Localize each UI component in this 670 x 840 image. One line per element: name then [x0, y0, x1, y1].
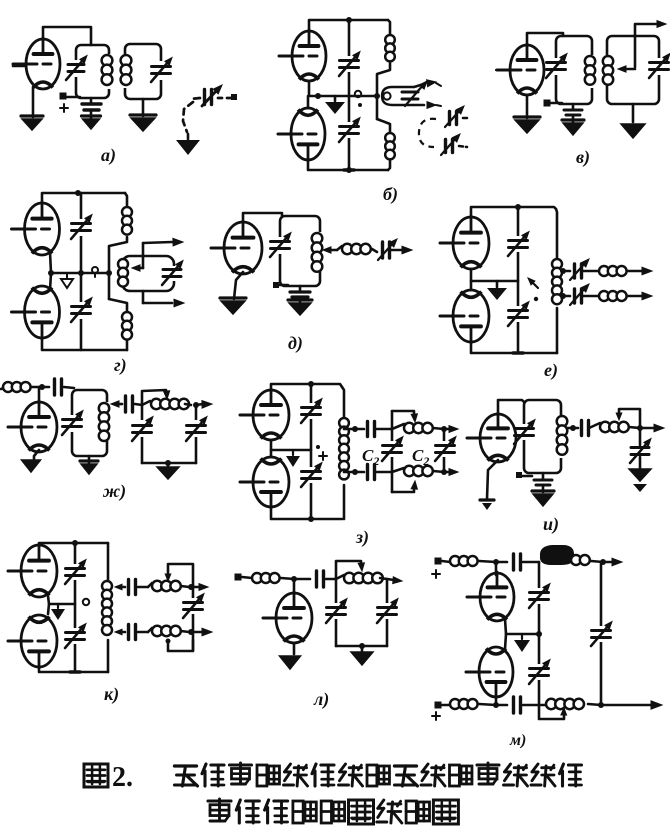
tank right rail k lower: [107, 640, 110, 672]
wire plate V7 to tank d: [243, 213, 282, 222]
output arrow i: [640, 427, 655, 430]
caption line1 glyph 14: [532, 764, 538, 772]
output arrow k upper: [191, 586, 199, 589]
variable capacitor m upper: [530, 591, 549, 594]
variable capacitor g lower: [72, 305, 91, 308]
series capacitor i: [580, 421, 583, 436]
tank left rail l: [335, 579, 338, 646]
antenna capacitor b upper: [448, 112, 451, 125]
circuit k: tube V15 lower: [21, 615, 57, 667]
bracket i: [619, 409, 640, 428]
plus mark m top: [432, 573, 440, 575]
input coil m top: [442, 561, 450, 562]
grid lead V1: [13, 65, 26, 68]
output arrow z lower: [444, 471, 450, 474]
varcap right k: [184, 601, 203, 604]
wire cathode V7 down d: [234, 272, 243, 299]
series capacitor k lower: [127, 625, 130, 640]
ground under V4 v: [514, 115, 540, 118]
caption line2 glyph 2: [236, 800, 240, 810]
ground below tank i: [532, 489, 554, 492]
tank right rail g upper + coil: [125, 193, 127, 206]
caption line1 glyph 6: [312, 764, 316, 774]
circuit v: tube V4: [510, 45, 544, 95]
junction dot g rail: [106, 270, 112, 276]
tap arrow k lower: [119, 631, 125, 634]
junction wire g: [51, 272, 109, 275]
tank right rail b upper + coil: [388, 20, 390, 34]
circuit e: tube V9 lower: [453, 290, 489, 342]
series capacitor 2 zh: [121, 403, 122, 406]
junction dot z out upper: [441, 426, 447, 432]
ground under V1: [21, 114, 43, 117]
input square m top: [435, 558, 442, 565]
varcap tank right l: [378, 606, 397, 609]
circuit e: tube V8 upper: [453, 217, 489, 269]
caption figure-number glyph: [84, 764, 108, 787]
ground below tank l: [361, 646, 364, 651]
plate lead zh: [38, 387, 41, 402]
plus mark z: [319, 455, 327, 457]
variable capacitor tank2 a: [152, 65, 171, 68]
plus mark m bottom: [432, 715, 440, 717]
ground under V7 d: [220, 296, 246, 299]
bracket bottom k: [168, 640, 193, 651]
ground below tank d: [288, 298, 312, 301]
inductor antenna tank v: [603, 56, 613, 66]
ground arrow k: [57, 604, 59, 608]
tank right rail g lower + coil: [109, 299, 127, 311]
input coil zh: [1, 388, 4, 389]
tank right rail b lower + coil: [377, 119, 390, 132]
cathode junction wire e: [471, 269, 518, 281]
output coil i: [589, 423, 600, 428]
varcap right rail m: [592, 629, 611, 632]
coil m bottom: [546, 699, 556, 709]
bias square d: [273, 282, 279, 288]
resonator left varcap z: [383, 444, 402, 447]
svg-text:л): л): [313, 689, 329, 710]
varcap tank left l: [327, 606, 346, 609]
shunt varcap i: [639, 428, 642, 445]
wire plate V4 to tank top v: [527, 33, 563, 45]
svg-text:з): з): [355, 527, 369, 548]
top wire k: [39, 543, 108, 545]
bottom wire k: [39, 667, 108, 672]
ground arrow b: [334, 96, 337, 101]
tap arrow k upper: [119, 586, 125, 589]
caption line2 glyph 4: [293, 801, 303, 823]
caption line1 glyph 10: [422, 764, 428, 772]
tank right rail z upper: [342, 387, 344, 418]
variable capacitor tank1 zh: [63, 418, 82, 421]
cathode junction z: [271, 440, 311, 450]
top wire b: [309, 20, 388, 31]
tank2 left rail zh: [141, 405, 144, 463]
junction dot b top: [346, 17, 352, 23]
top wire z: [271, 384, 342, 390]
antenna capacitor b lower: [444, 140, 447, 153]
feeder vertical g: [142, 243, 145, 268]
caption line1 glyph 11: [450, 765, 460, 786]
junction dot l: [291, 576, 297, 582]
caption line1 glyph 5: [285, 764, 291, 772]
output arrow m bottom: [601, 704, 650, 707]
junction dot m top: [493, 559, 499, 565]
tank2 bottom zh: [142, 462, 196, 465]
junction dot m top right: [600, 559, 606, 565]
ground i: [629, 469, 651, 481]
svg-text:ж): ж): [102, 481, 126, 502]
tank2 top bracket zh: [142, 390, 166, 405]
svg-text:и): и): [543, 514, 559, 535]
circuit l: tube V16: [276, 593, 312, 643]
series capacitor m bottom: [496, 704, 507, 707]
variable capacitor b lower: [340, 125, 359, 128]
tap arrow e: [531, 281, 538, 288]
stray mark left of b: [231, 94, 237, 100]
caption line1 glyph 13: [505, 764, 511, 772]
svg-text:а): а): [101, 145, 116, 166]
circuit d: tube V7: [224, 222, 262, 274]
blocking capacitor below tank i: [542, 473, 545, 479]
feeder arrow down a: [187, 134, 190, 139]
junction dot g top: [75, 190, 81, 196]
ground below tank2 a: [142, 99, 145, 116]
dashed antenna loop b: [419, 119, 436, 147]
coupling loop frame g: [122, 256, 174, 291]
tank tall coil k: [102, 581, 112, 591]
variable capacitor tank i: [515, 427, 534, 430]
junction dot k upper: [188, 584, 194, 590]
ground arrow e: [496, 281, 499, 287]
circuit zh: tube V10: [21, 402, 57, 452]
junction dot k lower: [188, 629, 194, 635]
inductor tank v: [585, 56, 595, 66]
right rail m: [600, 562, 603, 705]
blocking capacitor below tank1 a: [90, 98, 93, 103]
variable capacitor g upper: [72, 222, 91, 225]
svg-text:г): г): [114, 355, 127, 376]
middle column b: [348, 20, 351, 170]
junction dot z: [308, 381, 314, 387]
tank right rail k upper: [107, 543, 110, 581]
tank frame d: [280, 216, 320, 286]
svg-text:м): м): [509, 732, 526, 749]
bias square node v: [544, 100, 551, 107]
tank right rail e lower: [556, 308, 559, 353]
caption line1 glyph 12: [477, 763, 499, 766]
feeder top arrow g: [143, 242, 172, 243]
wire cathode V1 down: [32, 87, 35, 117]
svg-text:в): в): [576, 147, 590, 168]
variable capacitor k lower: [66, 631, 85, 634]
grid dash lead v: [496, 69, 505, 71]
feeder bottom arrow g: [143, 302, 172, 305]
output arrow l: [387, 579, 394, 580]
circuit i: tube V13: [480, 414, 516, 462]
antenna feed wire v: [635, 24, 658, 67]
ground below tank2 zh: [167, 463, 170, 466]
tank right rail e upper: [556, 209, 557, 259]
output arrow z upper: [444, 428, 450, 431]
wire plate V1 to tank1 top: [43, 27, 91, 45]
caption line1 glyph 15: [560, 764, 564, 774]
middle column e: [517, 207, 520, 353]
blocking capacitor below tank d: [299, 286, 302, 291]
caption line2 glyph 6: [349, 800, 374, 824]
circuit b: tube V2 upper: [292, 31, 326, 81]
junction dot b center: [315, 93, 321, 99]
small coil m top: [571, 555, 581, 565]
ground under V13 i: [480, 498, 494, 501]
circuit a: tube V1: [26, 39, 60, 89]
variable capacitor b upper: [340, 59, 359, 62]
plate lead l: [293, 579, 296, 593]
circuit m: tube V18 lower: [479, 647, 513, 697]
circuit z: tube V12 lower: [253, 457, 289, 507]
tank top coil l: [336, 575, 344, 579]
tank coil e: [552, 259, 562, 269]
caption line2 glyph 5: [321, 801, 331, 823]
caption line1 glyph 2: [202, 764, 206, 774]
output tap dot i: [570, 425, 576, 431]
tank tall coil z: [339, 418, 349, 428]
svg-text:е): е): [544, 360, 558, 381]
input square l: [235, 574, 242, 581]
top wire g: [42, 193, 125, 203]
coupling coil g: [118, 259, 128, 269]
svg-text:б): б): [383, 184, 398, 205]
junction dot m bottom right: [598, 702, 604, 708]
ground arrow small g: [66, 273, 68, 278]
caption line2 glyph 1: [208, 799, 231, 802]
feed tap arrow v: [624, 68, 635, 71]
variable capacitor z upper: [302, 406, 321, 409]
series capacitor m top: [496, 561, 507, 564]
resonator bottom coil z: [392, 468, 404, 472]
right rail k: [192, 585, 195, 650]
ground below tank1 a: [82, 114, 101, 117]
series capacitor z lower: [366, 465, 369, 480]
caption line2 glyph 7: [378, 800, 384, 808]
output lower e: capacitor: [563, 295, 570, 298]
caption line1 glyph 1: [175, 764, 197, 767]
circuit m: tube V17 upper: [480, 573, 514, 621]
tap dot e lower: [560, 293, 566, 299]
output arrow b upper: [414, 84, 424, 87]
inductor tank1 zh: [99, 403, 109, 413]
output arrow b lower: [414, 104, 424, 107]
svg-text:2.: 2.: [112, 762, 133, 793]
ground under V10 zh: [34, 450, 39, 459]
variable capacitor z lower: [302, 470, 321, 473]
tank frame i: [524, 400, 561, 473]
junction dot z out lower: [441, 469, 447, 475]
tank2 frame a: [125, 44, 161, 99]
input coil m bottom: [442, 704, 450, 707]
resonator top bracket z: [392, 411, 414, 415]
tank right rail l: [386, 579, 389, 646]
tank2 right rail zh: [195, 405, 198, 463]
output tap arrow d: [328, 249, 337, 252]
svg-text:д): д): [288, 333, 303, 354]
series capacitor k upper: [127, 580, 130, 595]
coil k lower: [148, 628, 152, 632]
bottom bracket m: [539, 705, 564, 719]
tank frame v: [556, 36, 592, 104]
caption line1 glyph 8: [367, 765, 377, 786]
junction dot b bottom: [346, 167, 352, 173]
tap lower z: [352, 469, 358, 475]
feeder tap arrow g: [138, 267, 143, 270]
caption line2 glyph 3: [265, 800, 269, 810]
plus mark a: [60, 107, 68, 109]
inductor tank1 a: [102, 55, 113, 66]
ground below tank v: [562, 118, 584, 121]
variable capacitor antenna tank v: [650, 61, 669, 64]
middle column g: [80, 193, 83, 350]
series capacitor z upper: [366, 422, 369, 437]
output upper e: coil: [582, 270, 599, 273]
variable capacitor tank2 right zh: [187, 424, 206, 427]
cathode link g: [50, 252, 51, 290]
black coil blob m: [541, 546, 573, 564]
variable capacitor e lower: [509, 309, 528, 312]
middle rail m: [538, 562, 541, 705]
caption line2 glyph 9: [433, 800, 458, 824]
output arrow zh: [196, 404, 203, 405]
coupling variable capacitor g: [163, 268, 181, 271]
dashed feeder line a: [218, 97, 233, 100]
junction marks k: [72, 540, 78, 546]
wire cathode V13 down i: [487, 460, 498, 499]
inductor tank i: [557, 416, 568, 427]
tank2 top coil zh: [142, 401, 150, 405]
junction dot m mid: [536, 631, 542, 637]
top wire e: [471, 207, 556, 217]
ground arrow m: [521, 634, 523, 639]
caption line1 glyph 4: [257, 765, 267, 786]
inductor tank d: [312, 233, 323, 244]
ground below antenna tank v: [632, 104, 635, 122]
tap upper z: [352, 426, 358, 432]
caption line1 glyph 3: [230, 763, 252, 766]
tap circle k: [83, 599, 89, 605]
bias square i: [516, 472, 522, 478]
variable capacitor tank d: [271, 240, 290, 243]
resonator right rail z: [443, 429, 446, 472]
tap circle g: [92, 267, 98, 273]
circuit b: tube V3 lower: [291, 108, 325, 160]
caption line1 glyph 9: [395, 764, 417, 767]
resonator right varcap z: [436, 444, 455, 447]
series capacitor zh: [42, 386, 49, 389]
variable capacitor coupling b: [402, 91, 418, 94]
junction dots e: [515, 204, 521, 210]
ground arrow z: [292, 450, 294, 455]
bracket top k: [168, 564, 193, 585]
resonator bottom bracket z: [392, 488, 414, 492]
tank bottom l: [336, 645, 387, 648]
tank right rail z lower: [343, 485, 346, 519]
ground under V16 l: [293, 643, 296, 654]
top bracket l: [336, 561, 361, 579]
junction dot b rail: [374, 93, 380, 99]
cathode junction wire b: [309, 81, 377, 96]
circuit z: tube V11 upper: [253, 390, 289, 440]
output lower e: coil: [582, 295, 599, 298]
variable capacitor tank1 a: [68, 63, 84, 66]
input coil l: [252, 573, 262, 583]
tank1 frame a: [76, 45, 109, 98]
feeder capacitor a: [203, 90, 206, 105]
junction dot m bottom: [493, 702, 499, 708]
variable capacitor m lower: [530, 667, 549, 670]
variable capacitor k upper: [66, 567, 85, 570]
junction dot zh: [39, 384, 45, 390]
coil k upper: [148, 583, 152, 587]
circuit g: tube V5 upper: [25, 203, 60, 255]
circuit k: tube V14 upper: [21, 545, 57, 597]
bottom wire e: [471, 342, 557, 353]
output arrow k lower: [191, 631, 202, 634]
caption line1 glyph 7: [340, 764, 346, 772]
resonator left rail z: [391, 411, 394, 492]
series capacitor l: [294, 578, 310, 581]
junction dot zh right: [193, 402, 199, 408]
tank1 frame zh: [72, 390, 107, 456]
output arrow m top: [603, 561, 612, 564]
variable capacitor e upper: [509, 239, 528, 242]
variable capacitor tank v: [547, 61, 566, 64]
output coil d: [337, 246, 342, 250]
tap dot e upper: [560, 268, 566, 274]
middle column k: [74, 543, 77, 672]
ground below tank1 zh: [88, 456, 91, 463]
output arrow d: [390, 249, 404, 252]
wire cathode V4 down v: [526, 95, 529, 118]
resonator top coil z: [392, 424, 404, 429]
circuit g: tube V6 lower: [25, 286, 60, 338]
small circle tap b: [355, 91, 361, 97]
caption line2 glyph 8: [406, 801, 416, 823]
middle column z: [310, 384, 313, 519]
junction dot i: [637, 425, 643, 431]
cathode junction m: [505, 619, 506, 649]
output upper e: arrow: [642, 267, 652, 275]
output upper e: capacitor: [563, 270, 570, 273]
inductor tank2 a: [121, 55, 132, 66]
variable capacitor tank2 left zh: [133, 424, 152, 427]
cathode junction k: [48, 596, 49, 614]
wire plate V13 to tank i: [498, 400, 524, 414]
input square m bottom: [435, 702, 442, 709]
output lower e: arrow: [642, 292, 652, 300]
bottom wire b: [308, 160, 388, 170]
bottom wire g: [42, 338, 127, 350]
blocking capacitor below tank v: [572, 104, 575, 109]
output capacitor d: [381, 242, 384, 258]
bottom wire z: [271, 507, 342, 519]
antenna tank frame v: [607, 36, 659, 104]
svg-text:к): к): [104, 684, 119, 705]
bias square node a: [66, 96, 80, 99]
output tap arrow zh: [116, 403, 121, 406]
coupling loop b: [382, 87, 414, 105]
